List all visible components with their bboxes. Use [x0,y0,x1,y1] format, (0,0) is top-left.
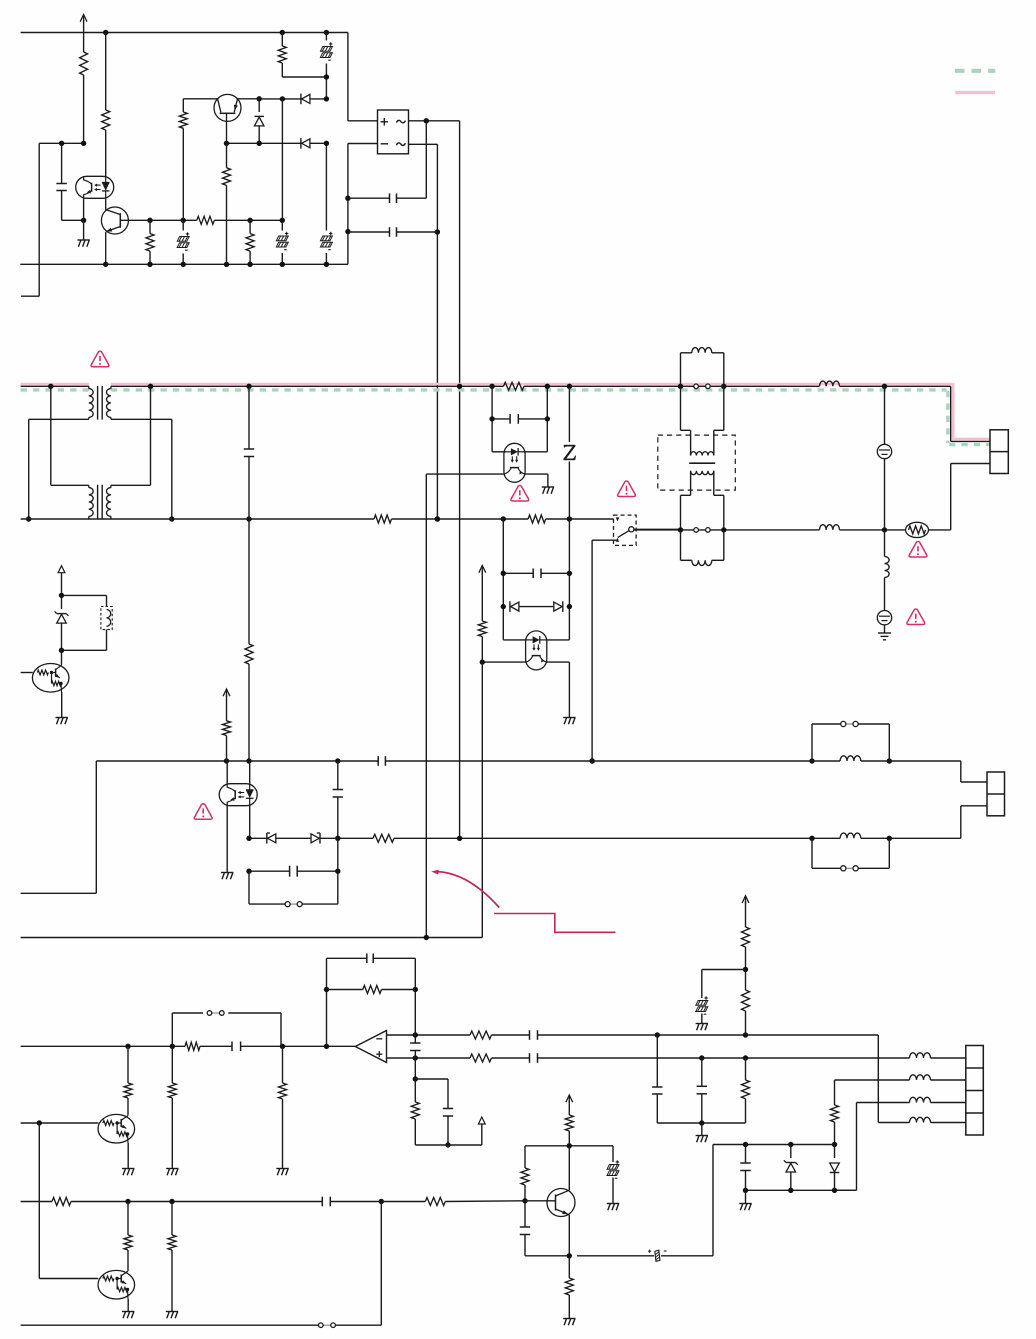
ground R25 [563,1319,575,1326]
resistor R-N1 [374,515,392,523]
capacitor C9 [246,866,340,877]
connector CN-AC [990,430,1008,474]
capacitor C3 [348,227,438,237]
capacitor C4 [244,386,254,519]
wire PC3 collector [547,662,570,717]
resistor R1 [80,33,88,144]
wire node A [39,141,86,146]
wire base link [39,1123,98,1279]
connector pair byp [207,1011,224,1016]
wire Q3 emitter [567,1215,572,1259]
resistor R12 [185,1042,200,1050]
node junction on V+ rail [103,30,329,35]
connector pair lower [694,528,710,533]
wire PC3 emitter [480,659,526,664]
legend pink line [955,91,995,94]
capacitor C18 [232,1042,241,1052]
ground earth S2 [878,633,891,640]
resistor R27 [425,1198,525,1206]
wire Q3 collector [568,1146,570,1190]
wire top rail V+ [21,33,378,121]
diode D5 [554,601,563,612]
capacitor C6 [503,569,569,579]
wire Q3 top rail [525,1143,613,1148]
coil K1 dashed [101,607,112,630]
capacitor C13 [530,1053,910,1063]
wire conn loop top [812,724,889,761]
zener ZD2 [784,1145,798,1191]
wire conn bypass [172,1013,281,1046]
resistor R22 [742,927,750,972]
wire T1 left return [26,419,89,521]
connector pair out1 [841,721,859,726]
connector pair out2 [841,866,859,871]
wire clamp top rail [713,1142,835,1147]
capacitor CE3 [320,143,332,264]
diode D1 [254,99,264,144]
wire conn loop bottom [812,838,889,868]
wire T2 right riser [111,386,151,485]
optocoupler PC3 [526,631,547,670]
capacitor CE4 [320,33,332,99]
wire to CN-OUT bottom [895,806,988,839]
connector pair on AC rail [694,384,710,389]
capacitor C8 [333,761,343,838]
wire SW1 branch [589,540,616,764]
resistor R5 [246,220,254,264]
arrow open left [58,566,65,596]
transistor Q3 [522,1189,575,1217]
warning triangle PC4 [194,804,212,820]
wire PC2 emitter [426,474,504,937]
wire lower AC row [633,527,951,532]
wire Q2 emitter [238,96,262,101]
wire riser left2 [501,519,526,640]
resistor R25 [565,1256,573,1319]
op-amp U1 [355,1031,386,1063]
resistor R16 [327,986,416,994]
capacitor C1 [56,143,83,220]
wire pin3 drop [835,1103,857,1191]
warning triangle right2 [907,609,925,625]
resistor R14 [168,1046,176,1168]
inductor L7 [835,1075,966,1080]
resistor R-N2 [528,515,546,523]
resistor R11 [373,834,394,842]
transformer T1 [89,386,111,420]
zener ZD1 [55,593,69,653]
ground PC1 [77,240,89,247]
warning triangle right1 [909,542,927,558]
wire AC neutral rail [21,516,614,521]
ground DT2 [122,1312,134,1319]
wire bias rail [415,1124,482,1145]
diode D2 [301,94,310,105]
resistor R21 [742,970,750,1036]
connector pair mid [285,902,302,907]
capacitor C7 [338,756,961,766]
capacitor C12 [530,1030,879,1040]
resistor R8 [245,519,253,761]
wire left stub L [21,143,39,296]
wire mic out riser [712,1145,714,1256]
AC line pink overlay [21,383,990,439]
wire riser right [523,386,550,452]
inductor L9 [910,1117,966,1122]
connector CN-OUT [987,772,1005,816]
resistor R-line [504,382,525,390]
wire bridge minus [345,144,377,265]
digital transistor DT3 [32,650,69,717]
transistor Q1 [101,199,150,265]
resistor R2 [102,33,110,177]
wire SW1 out [634,528,681,531]
arrow supply R21 [742,896,749,927]
resistor R18 [470,1054,530,1062]
connector pair bottom [319,1323,336,1328]
wire riser right2 [547,519,572,640]
wire inv input [387,1032,471,1037]
wire Vm [281,99,283,220]
capacitor C14 [443,1079,453,1148]
feedback riser right [413,958,418,1035]
resistor R20 [742,1058,750,1123]
ground PC3 [563,718,575,725]
legend dashed green line [955,69,995,73]
inductor L2 [692,560,712,565]
wire base row [147,218,285,223]
wire bridge AC top [409,118,460,123]
digital transistor DT1 [98,1114,135,1168]
wire TD bottom leads [681,471,724,530]
ground DT3 [56,718,68,725]
impedance Z element [564,386,576,519]
wire surge loop [62,595,107,650]
resistor R4 [197,216,215,224]
wire DT3 base [21,672,33,674]
warning triangle near T1 [91,351,109,367]
inductor L5 [840,833,861,838]
capacitor CE1 [177,220,189,264]
diode D7 [311,833,320,844]
wire long vertical B [459,121,461,839]
capacitor C10 [410,1035,420,1058]
digital transistor DT2 [98,1270,135,1311]
wire riser mid [302,838,338,904]
arrow supply V+ [80,15,87,33]
AC line black wire [21,386,990,441]
capacitor CE6 [607,1146,619,1204]
capacitor C5 [492,414,547,424]
wire ecap branch [702,970,746,999]
wire noninv input [387,1055,471,1060]
capacitor CE5 [696,996,708,1023]
wire conn mid [249,871,285,904]
capacitor CE7 [577,1250,713,1262]
feedback riser left [324,958,329,1046]
capacitor C16 [520,1201,570,1256]
wire clamp bottom rail [743,1188,857,1193]
wire long vertical A join [435,516,440,521]
wire w12 corner [878,1035,909,1123]
wire opamp out rail [21,1044,356,1049]
resistor R23 [565,1115,573,1146]
ground DT1 [122,1169,134,1176]
inductor L8 [857,1097,966,1102]
inductor L-low [820,525,840,530]
resistor R10 [223,721,231,761]
AC line green dashed overlay [21,390,990,445]
wire to CN-OUT top [961,761,987,782]
wire DT1 base [21,1120,99,1125]
resistor R7 [278,33,326,78]
ground R29 [166,1312,178,1319]
resistor R19 [411,1079,419,1145]
wire bridge AC bottom [409,144,441,519]
wire long bottom [21,935,483,940]
resistor R24 [521,1146,529,1201]
annotation pink arrow [431,870,499,908]
warning triangle PC2 [511,486,529,502]
arrow open bias [478,1117,485,1124]
ground PC2 [542,487,554,494]
resistor R9 [478,621,486,938]
wire out rail [96,758,892,763]
arrow supply mid [479,566,486,622]
wire L-loop top [681,353,724,387]
wire pin2 drop [831,1080,839,1147]
diode D6 [267,833,276,844]
wire PC4 pins [227,761,250,873]
capacitor CE2 [276,220,288,264]
transformer T2 [89,485,111,519]
wire T1 right return [111,419,175,521]
diode D8 [830,1145,840,1191]
resistor R17 [470,1031,530,1039]
inductor L6 [910,1053,966,1058]
wire W143 [224,141,329,146]
wire f1 riser [652,1035,702,1123]
resistor R3 [146,220,154,264]
wire PC2 collector [525,474,548,487]
ground CE5 [696,1024,708,1031]
ground R14 [166,1169,178,1176]
ground CE6 [607,1204,619,1211]
ground f [696,1136,708,1143]
switch SW1 [614,515,637,545]
wire PC1 emitter node [81,199,86,241]
wire Q2 collector [183,98,217,100]
diode D3 [301,138,310,149]
node dots on AC rail [48,384,887,389]
wire bias node [413,1058,448,1082]
resistor R26 [52,1198,71,1206]
resistor R28 [124,1202,132,1271]
ground R15 [276,1169,288,1176]
arrow supply Q3 [566,1095,573,1115]
sensor S2 [877,611,891,634]
capacitor C17 [322,1197,425,1207]
resistor R6 [179,99,187,221]
capacitor C11 [327,954,416,964]
resistor R13 [124,1046,132,1114]
wire f2 riser [697,1058,707,1136]
capacitor C2 [348,121,426,203]
wire T2 left riser [51,386,89,485]
capacitor C15 [740,1145,750,1191]
wire W99 [259,96,329,101]
diode D4 [510,601,553,612]
optocoupler PC4 [219,784,257,806]
annotation pink step line [494,914,616,933]
wire TD top leads [681,386,724,455]
coil L3 [885,530,890,611]
ground PC4 [221,873,233,880]
wire diode row [246,836,894,841]
optocoupler PC1 [76,176,114,198]
transformer TD dashed box [658,435,736,490]
ground clamp [739,1190,751,1210]
wire out left return [21,761,97,893]
wire mic in [21,1199,384,1204]
arrow supply out [223,689,230,721]
wire bottom rail top-section [20,262,348,267]
bridge rectifier BR1 [378,110,409,154]
wire bottom gnd rail [21,1202,382,1326]
transistor Q2 [214,94,241,143]
warning triangle SW [618,481,636,497]
wire f rung [702,1122,746,1124]
inductor L4 [840,756,861,761]
inductor L1 [692,348,712,353]
optocoupler PC2 [504,443,525,482]
wire L-loop bottom [681,530,724,560]
connector CN4 [966,1046,984,1136]
transformer TD [689,452,715,475]
wire CN-AC lower riser [951,464,990,530]
resistor R15 [279,1046,287,1168]
wire riser left [489,386,506,452]
resistor R30 [223,143,231,264]
inductor L-rail [820,381,840,386]
sensor S1 [877,386,891,530]
thermistor TH1 [906,522,929,537]
resistor R29 [168,1202,176,1312]
